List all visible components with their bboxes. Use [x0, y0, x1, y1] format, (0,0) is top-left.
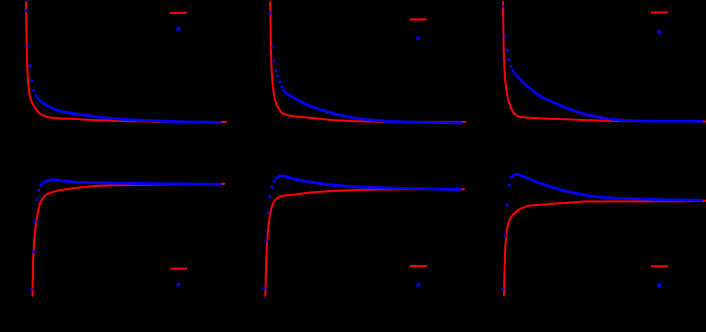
- top-right subplot blue dotted series: [502, 5, 703, 123]
- top-middle subplot legend red line key: [410, 18, 427, 20]
- bottom-middle subplot blue dotted series: [263, 174, 462, 290]
- bottom-middle subplot red curve: [265, 189, 464, 296]
- top-middle subplot legend blue marker key: [416, 36, 420, 40]
- top-right subplot legend red line key: [651, 11, 668, 13]
- top-left subplot legend red line key: [170, 12, 187, 14]
- bottom-right subplot blue dotted series: [502, 173, 703, 291]
- top-middle subplot red curve: [270, 2, 465, 122]
- top-middle subplot blue dotted series: [269, 12, 463, 125]
- bottom-right subplot legend red line key: [651, 265, 668, 267]
- bottom-right subplot legend blue marker key: [657, 283, 661, 287]
- top-right subplot legend blue marker key: [657, 30, 661, 34]
- top-left subplot blue dotted series: [25, 9, 222, 124]
- top-right subplot red curve: [503, 2, 706, 122]
- top-left subplot red curve: [26, 2, 226, 122]
- bottom-left subplot legend blue marker key: [177, 283, 181, 287]
- bottom-middle subplot legend blue marker key: [416, 283, 420, 287]
- bottom-left subplot blue dotted series: [30, 178, 222, 291]
- bottom-right subplot red curve: [504, 201, 706, 295]
- top-left subplot legend blue marker key: [176, 27, 180, 31]
- bottom-left subplot red curve: [33, 184, 225, 296]
- bottom-middle subplot legend red line key: [410, 265, 427, 267]
- bottom-left subplot legend red line key: [170, 268, 187, 270]
